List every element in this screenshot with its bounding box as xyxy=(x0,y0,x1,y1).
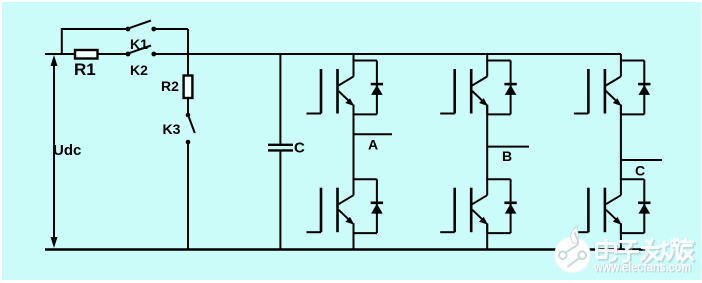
svg-text:www.elecfans.com: www.elecfans.com xyxy=(593,260,691,275)
svg-text:R1: R1 xyxy=(74,60,96,79)
svg-text:C: C xyxy=(294,140,305,157)
svg-text:Udc: Udc xyxy=(53,142,81,159)
svg-text:B: B xyxy=(502,148,512,164)
svg-text:R2: R2 xyxy=(161,78,179,94)
svg-text:K3: K3 xyxy=(163,121,181,137)
svg-text:K1: K1 xyxy=(130,36,148,52)
svg-text:K2: K2 xyxy=(130,62,148,78)
svg-text:C: C xyxy=(635,163,645,179)
svg-text:A: A xyxy=(368,137,378,153)
